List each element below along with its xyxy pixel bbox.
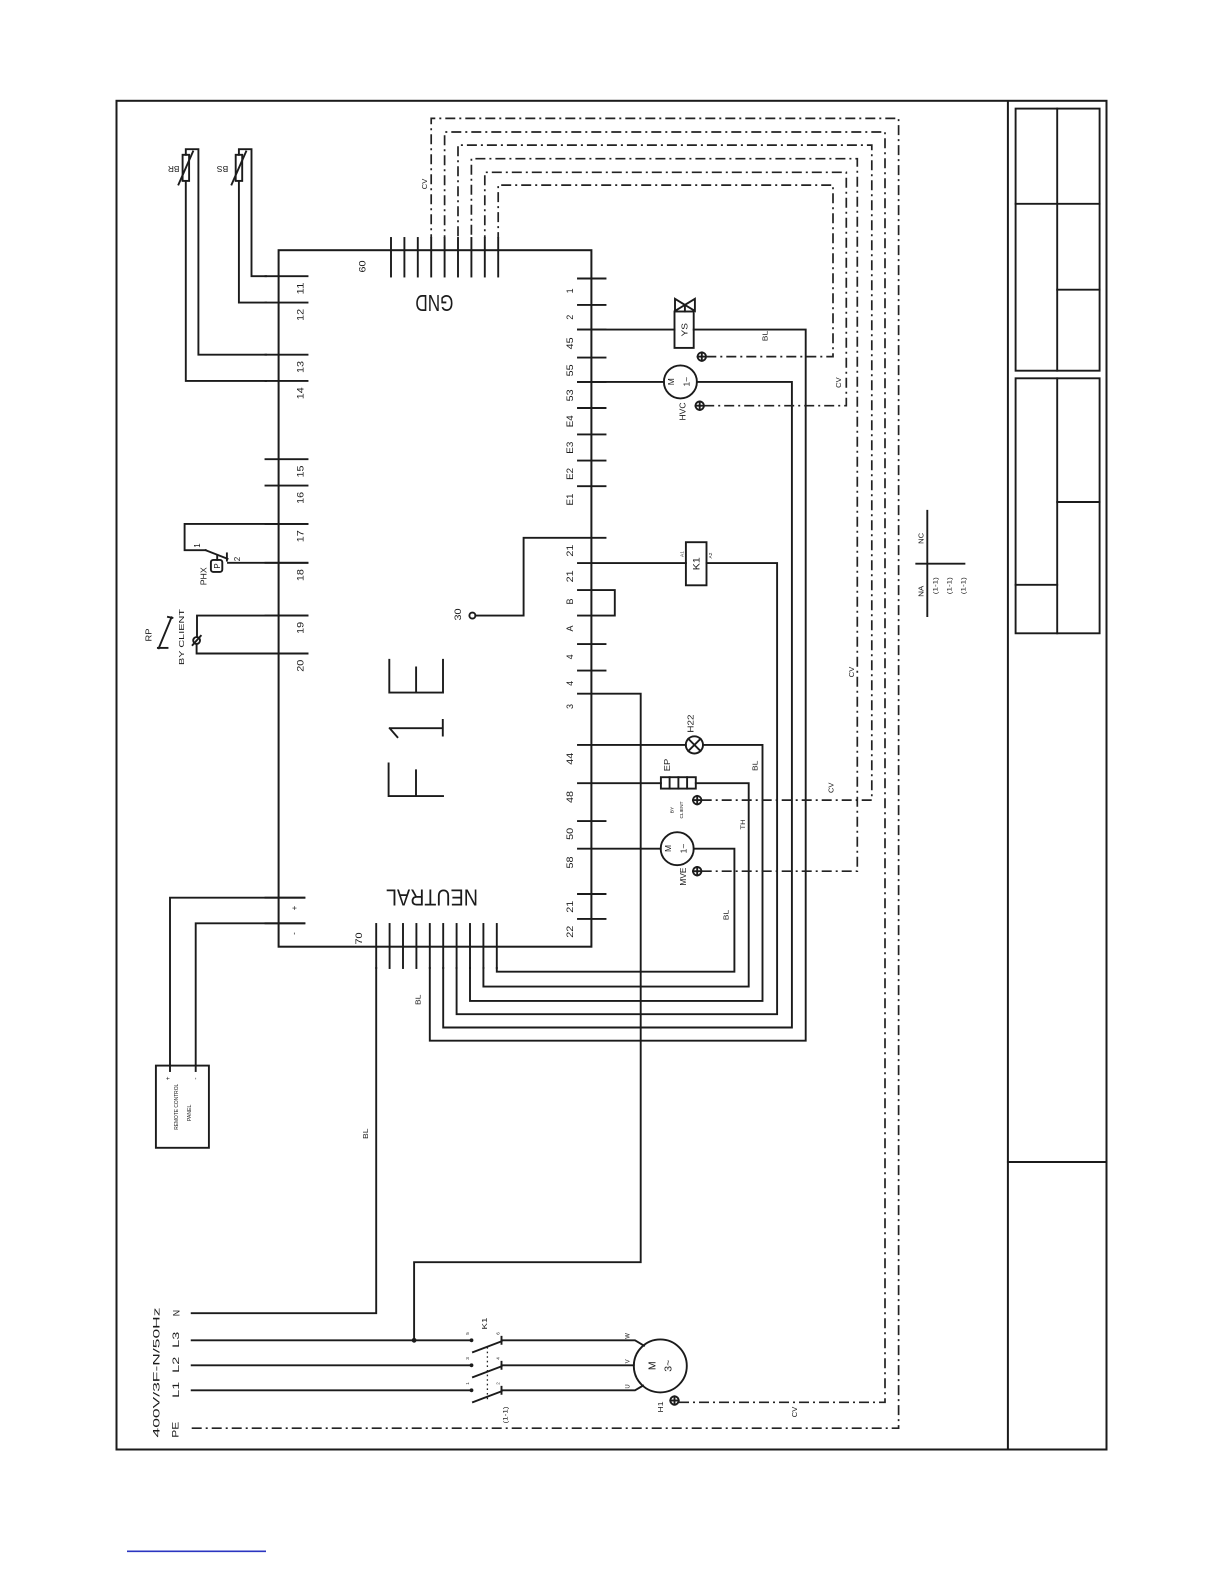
svg-text:21: 21	[565, 570, 575, 582]
svg-text:L2: L2	[171, 1357, 181, 1373]
svg-text:(1-1): (1-1)	[960, 577, 967, 594]
remote control panel box	[156, 1066, 209, 1148]
control board F1E outline	[279, 250, 592, 947]
svg-text:YS: YS	[679, 323, 689, 337]
node 30 connector wire from terminal 21	[475, 538, 605, 616]
svg-text:H1: H1	[658, 1401, 665, 1412]
earth wire MVE to GND strip (CV)	[471, 159, 857, 872]
wire YS return to neutral tick	[430, 330, 806, 1041]
terminal 50	[578, 820, 606, 822]
wire H22 return to neutral tick	[470, 745, 763, 1001]
svg-text:A2: A2	[708, 552, 714, 558]
wire contact to motor U	[502, 1386, 644, 1391]
svg-text:BL: BL	[752, 760, 759, 771]
svg-text:60: 60	[358, 261, 368, 273]
earth wire H1 to GND strip (CV)	[445, 132, 885, 1402]
wire contact to motor V	[502, 1364, 634, 1366]
wire terminal 21 to K1 coil	[578, 562, 686, 564]
svg-text:4: 4	[565, 654, 575, 659]
label F1E (plotter strokes, rotated)	[389, 660, 443, 796]
svg-text:55: 55	[565, 364, 575, 376]
svg-text:K1: K1	[480, 1318, 489, 1330]
heating element EP	[661, 758, 696, 788]
svg-text:TH: TH	[741, 820, 747, 830]
svg-text:2: 2	[496, 1382, 501, 1385]
svg-text:M: M	[666, 378, 676, 385]
svg-text:5: 5	[465, 1332, 470, 1335]
svg-text:BL: BL	[723, 910, 730, 921]
terminal 11	[266, 275, 308, 277]
terminal 19	[266, 615, 308, 617]
terminal E2	[578, 460, 606, 462]
svg-text:MVE: MVE	[678, 867, 688, 885]
svg-text:PE: PE	[171, 1422, 181, 1438]
svg-text:1~: 1~	[678, 844, 688, 854]
terminal 18	[266, 562, 308, 564]
svg-text:BS: BS	[217, 164, 229, 173]
terminal 55	[578, 357, 606, 359]
earth symbol at EP (by client)	[693, 796, 701, 804]
svg-text:400V/3F-N/50Hz: 400V/3F-N/50Hz	[152, 1308, 162, 1438]
svg-text:1: 1	[565, 288, 575, 293]
svg-text:PHX: PHX	[200, 567, 209, 586]
lamp H22	[686, 714, 704, 753]
earth wire YS to GND strip (CV)	[498, 185, 833, 357]
terminal 53	[578, 381, 606, 383]
wire BR top lead to terminal 13	[186, 149, 266, 355]
wire N to neutral strip	[192, 968, 377, 1313]
wire remote panel - to terminal -	[196, 923, 305, 1065]
earth symbol at YS	[698, 352, 706, 360]
svg-text:NC: NC	[917, 532, 926, 544]
wire EP return to neutral tick	[483, 783, 748, 986]
earth symbol H1 at motor	[670, 1396, 678, 1404]
wire K1 coil return to neutral tick	[457, 563, 777, 1014]
terminal 17	[266, 523, 308, 525]
svg-text:1: 1	[465, 1382, 470, 1385]
svg-text:50: 50	[565, 828, 575, 840]
svg-text:H22: H22	[686, 714, 696, 732]
hood motor HVC	[664, 365, 697, 420]
svg-text:BR: BR	[168, 164, 180, 173]
svg-text:-: -	[192, 1077, 199, 1079]
svg-text:17: 17	[296, 530, 306, 542]
title column separator	[1007, 101, 1009, 1450]
svg-text:12: 12	[296, 309, 306, 321]
svg-text:53: 53	[565, 389, 575, 401]
contactor coil K1	[680, 542, 715, 585]
earth symbol at HVC	[696, 402, 704, 410]
pressure switch PHX	[185, 524, 308, 585]
svg-text:N: N	[172, 1310, 182, 1316]
svg-text:11: 11	[296, 283, 306, 295]
earth wire HVC to GND strip (CV)	[485, 172, 847, 405]
svg-text:+: +	[165, 1076, 172, 1080]
title block box 2	[1016, 378, 1100, 633]
wire terminal 58 to MVE	[578, 848, 661, 850]
wire L1	[192, 1389, 472, 1391]
wire BR bottom lead to terminal 14	[186, 181, 266, 381]
svg-text:U: U	[626, 1384, 632, 1388]
svg-text:CV: CV	[792, 1406, 799, 1417]
wire L3	[192, 1339, 472, 1341]
svg-text:4: 4	[565, 681, 575, 686]
terminal 4 second	[578, 670, 606, 672]
svg-text:3: 3	[465, 1357, 470, 1360]
wire PE (dash-dot) to earth loop	[192, 118, 899, 1428]
contactor K1 main contacts	[465, 1318, 509, 1424]
svg-text:K1: K1	[692, 557, 702, 570]
terminal strip 70 connected ticks	[376, 924, 497, 968]
wire BS bottom lead to terminal 12	[239, 181, 266, 303]
junction L3 terminal-3 feed	[412, 1338, 417, 1343]
terminal strip 60 (GND) plain ticks	[391, 238, 418, 277]
svg-text:E2: E2	[565, 468, 575, 480]
solenoid valve YS	[675, 299, 695, 348]
wire terminal 3 to L3 junction	[414, 694, 641, 1341]
terminal E4	[578, 407, 606, 409]
terminal 14	[266, 380, 308, 382]
svg-text:NEUTRAL: NEUTRAL	[386, 884, 478, 910]
svg-text:21: 21	[565, 545, 575, 557]
wire terminal 48 to EP	[578, 782, 661, 784]
svg-text:15: 15	[296, 466, 306, 478]
wire remote panel + to terminal +	[170, 898, 304, 1066]
svg-text:20: 20	[296, 660, 306, 672]
svg-text:CV: CV	[836, 377, 843, 388]
wire contact to motor W	[502, 1340, 645, 1345]
svg-text:E4: E4	[565, 415, 575, 427]
svg-text:REMOTE CONTROL: REMOTE CONTROL	[174, 1084, 180, 1130]
svg-text:BL: BL	[363, 1128, 370, 1139]
wire MVE return to neutral tick	[497, 849, 735, 972]
svg-text:(1-1): (1-1)	[502, 1407, 509, 1424]
svg-text:E3: E3	[565, 442, 575, 454]
svg-text:19: 19	[296, 622, 306, 634]
svg-text:RP: RP	[144, 629, 153, 642]
terminal 21 third	[578, 893, 606, 895]
svg-text:V: V	[626, 1359, 632, 1363]
svg-text:BL: BL	[762, 331, 769, 342]
wire BS top lead to terminal 11	[239, 149, 266, 276]
wire HVC return to neutral tick	[443, 382, 792, 1028]
node 30 circle	[469, 613, 475, 619]
svg-text:14: 14	[296, 387, 306, 399]
svg-text:PANEL: PANEL	[187, 1105, 193, 1122]
wire terminal 45 to YS	[578, 329, 675, 331]
svg-text:L1: L1	[171, 1382, 181, 1398]
svg-text:2: 2	[565, 315, 575, 320]
svg-text:A1: A1	[680, 551, 686, 557]
svg-text:-: -	[290, 932, 299, 935]
motor M 3~	[626, 1333, 687, 1393]
svg-text:1~: 1~	[682, 377, 692, 387]
svg-text:30: 30	[453, 609, 463, 621]
thermistor BS	[217, 152, 246, 185]
outer drawing border	[117, 101, 1107, 1450]
svg-text:3~: 3~	[663, 1360, 675, 1372]
svg-text:HVC: HVC	[678, 403, 688, 421]
terminal E3	[578, 433, 606, 435]
svg-text:M: M	[647, 1361, 659, 1370]
svg-text:2: 2	[233, 556, 242, 561]
fan motor MVE	[661, 832, 694, 885]
svg-text:1: 1	[193, 543, 202, 548]
jumper terminal B to terminal A	[578, 590, 615, 616]
svg-text:BL: BL	[416, 994, 423, 1005]
svg-text:44: 44	[565, 753, 575, 765]
terminal 20	[266, 653, 308, 655]
svg-text:22: 22	[565, 926, 575, 938]
svg-text:45: 45	[565, 337, 575, 349]
terminal strip 70 (NEUTRAL) plain ticks	[390, 924, 417, 968]
svg-text:58: 58	[565, 857, 575, 869]
svg-text:BY CLIENT: BY CLIENT	[177, 608, 186, 665]
contact table NA / NC	[916, 511, 967, 616]
terminal 12	[266, 302, 308, 304]
svg-text:70: 70	[354, 933, 364, 945]
svg-text:L3: L3	[171, 1332, 181, 1348]
svg-text:(1-1): (1-1)	[933, 577, 940, 594]
title block divider	[1008, 1161, 1107, 1163]
terminal -	[266, 922, 305, 924]
terminal 45	[578, 329, 606, 331]
svg-text:4: 4	[496, 1357, 501, 1360]
wire terminal 53 to HVC	[578, 381, 664, 383]
terminal 16	[266, 485, 308, 487]
svg-text:BY: BY	[670, 806, 676, 813]
svg-text:P: P	[213, 563, 222, 568]
wire L2	[192, 1364, 472, 1366]
svg-text:W: W	[626, 1333, 632, 1339]
terminal E1	[578, 485, 606, 487]
earth symbol at MVE	[693, 867, 701, 875]
terminal 1	[578, 278, 606, 280]
svg-text:GND: GND	[415, 290, 453, 316]
terminal 13	[266, 354, 308, 356]
terminal strip 60 earth ticks	[431, 238, 498, 277]
svg-text:CV: CV	[829, 782, 836, 793]
svg-text:EP: EP	[662, 758, 672, 771]
terminal 22	[578, 918, 606, 920]
svg-text:6: 6	[496, 1332, 501, 1335]
svg-text:CLIENT: CLIENT	[679, 801, 685, 818]
svg-text:NA: NA	[917, 586, 926, 597]
svg-text:+: +	[290, 905, 299, 910]
svg-text:B: B	[565, 598, 575, 604]
svg-text:CV: CV	[849, 666, 856, 677]
svg-text:16: 16	[296, 492, 306, 504]
terminal 4	[578, 643, 606, 645]
blue mark bottom left	[127, 1550, 266, 1552]
svg-text:3: 3	[565, 704, 575, 709]
svg-text:A: A	[565, 625, 575, 631]
svg-text:13: 13	[296, 361, 306, 373]
terminal 15	[266, 458, 308, 460]
wire terminal 44 to H22	[578, 744, 686, 746]
title block box 1	[1016, 109, 1100, 371]
svg-text:CV: CV	[422, 178, 429, 189]
thermistor BR	[168, 152, 193, 185]
svg-text:18: 18	[296, 569, 306, 581]
svg-text:E1: E1	[565, 494, 575, 506]
svg-text:(1-1): (1-1)	[946, 577, 953, 594]
svg-text:48: 48	[565, 791, 575, 803]
svg-text:M: M	[663, 845, 673, 852]
earth wire EP to GND strip (CV)	[458, 145, 872, 800]
svg-text:21: 21	[565, 901, 575, 913]
switch RP by client	[144, 608, 307, 665]
terminal 2	[578, 304, 606, 306]
terminal +	[266, 897, 305, 899]
